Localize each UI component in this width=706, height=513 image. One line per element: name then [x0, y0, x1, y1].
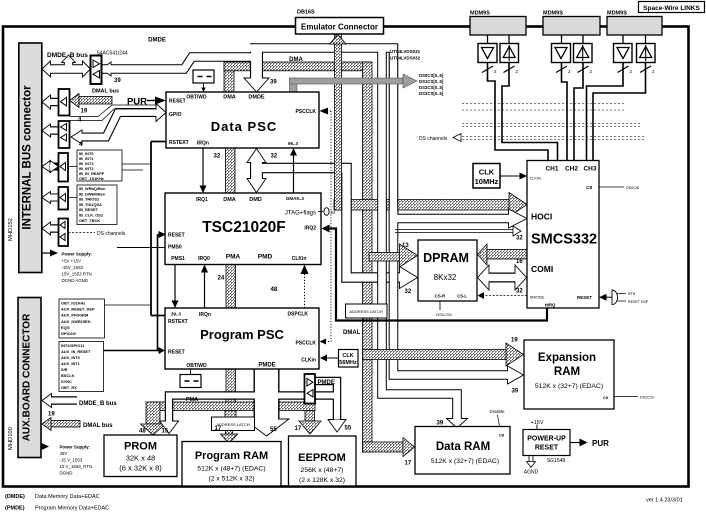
svg-text:32K x 48: 32K x 48	[126, 454, 156, 463]
svg-text:Power Supply:: Power Supply:	[60, 445, 91, 450]
block Program RAM	[182, 442, 281, 487]
signal list box AUX 2	[59, 342, 104, 392]
wire LVDS1a to CH1	[488, 63, 549, 161]
lvds pair 1 driver	[478, 44, 497, 63]
buffer row5	[59, 187, 69, 210]
lvds pair 2 receiver	[574, 44, 593, 63]
svg-text:CH1: CH1	[545, 166, 558, 173]
svg-text:DMDE: DMDE	[148, 38, 166, 44]
svg-text:RESET: RESET	[169, 99, 186, 105]
label power supply IB	[62, 252, 93, 284]
svg-text:PROM: PROM	[124, 441, 157, 453]
connector MDM9S 2	[543, 11, 600, 36]
svg-text:17: 17	[405, 461, 412, 467]
svg-text:48: 48	[271, 287, 278, 293]
svg-text:RESET: RESET	[535, 445, 559, 452]
svg-text:ver 1.4 23/3/01: ver 1.4 23/3/01	[646, 498, 683, 504]
wire Expansion RAM C9 to DS2CSI	[614, 396, 638, 398]
svg-text:PUR: PUR	[127, 97, 147, 108]
svg-text:TSC21020F: TSC21020F	[202, 219, 286, 236]
svg-text:UT54LVDS032: UT54LVDS032	[390, 56, 421, 61]
svg-text:56MHz: 56MHz	[339, 360, 357, 366]
wire DMD head up into Data PSC	[247, 149, 266, 163]
wire Program RAM 55 big head	[244, 419, 289, 436]
buffer row3	[59, 121, 70, 148]
svg-text:IRQn: IRQn	[199, 312, 211, 318]
svg-text:19: 19	[48, 412, 55, 418]
svg-text:DPRAM: DPRAM	[423, 251, 469, 265]
svg-text:10MHz: 10MHz	[475, 177, 499, 186]
svg-text:(2 x 512K x 32): (2 x 512K x 32)	[208, 476, 254, 483]
wire DPRAM 32 white head	[400, 267, 418, 289]
svg-text:Power Supply:: Power Supply:	[62, 252, 93, 257]
connector JTAG	[285, 208, 336, 217]
wire PROM 15 white head	[160, 421, 179, 434]
block DPRAM	[418, 240, 477, 301]
svg-text:13: 13	[402, 243, 409, 249]
wire MDM2 to LVDS	[562, 35, 584, 44]
bus width labels	[48, 78, 523, 467]
svg-text:32: 32	[214, 154, 221, 160]
svg-text:32: 32	[405, 289, 412, 295]
bus group: row6 double arrow	[42, 222, 59, 235]
svg-text:512K x (48+7) (EDAC): 512K x (48+7) (EDAC)	[197, 466, 265, 473]
wire PMA stub to address latch	[225, 411, 236, 418]
wire DMD head down into TSC	[247, 179, 266, 193]
svg-text:39: 39	[114, 78, 121, 84]
svg-text:DB16S: DB16S	[297, 10, 315, 16]
svg-text:CS-L: CS-L	[457, 294, 467, 299]
wire address latch to Program RAM 17 hatched	[221, 431, 238, 444]
wire power supply arrow AUX	[41, 446, 43, 448]
wire Expansion RAM 19 hatched head	[506, 343, 524, 366]
wire EEPROM 17 hatched head	[299, 421, 321, 434]
svg-text:MHD152: MHD152	[8, 218, 14, 241]
wire DS channels dashed stub left	[69, 232, 96, 234]
wire IRQn to TSC IRQ1	[202, 148, 204, 187]
svg-text:JTAG+flags: JTAG+flags	[285, 211, 316, 217]
svg-text:OBT/WD: OBT/WD	[186, 95, 207, 101]
svg-text:RESET DSP: RESET DSP	[628, 300, 649, 304]
bus group: row2 arrow to connector	[42, 95, 59, 109]
svg-text:+5V +15V: +5V +15V	[62, 259, 82, 264]
svg-text:DGND AGND: DGND AGND	[62, 278, 89, 283]
wire SMODE dashed to DPRAM CS-L	[483, 295, 527, 297]
svg-text:HIRQ: HIRQ	[545, 303, 556, 308]
svg-text:19: 19	[511, 338, 518, 344]
svg-text:ADDRESS LATCH: ADDRESS LATCH	[349, 309, 382, 314]
wire Expansion RAM 39 white head	[508, 366, 524, 384]
block CLK 56MHz	[320, 350, 358, 368]
slash marks 2-wide	[482, 66, 651, 73]
svg-text:15 V_1553_RTN: 15 V_1553_RTN	[60, 464, 93, 469]
svg-text:Program Memory Data+EDAC: Program Memory Data+EDAC	[35, 506, 109, 512]
wire gray chip-select bus from Data PSC	[290, 74, 418, 92]
svg-text:PUR: PUR	[592, 439, 609, 448]
svg-text:55: 55	[270, 427, 277, 433]
svg-text:CH2: CH2	[565, 166, 578, 173]
svg-text:DMA: DMA	[223, 95, 236, 101]
svg-text:96..3: 96..3	[288, 141, 299, 146]
buffer row4	[59, 153, 69, 182]
wire thin bus to SMCS with small head	[395, 226, 521, 236]
svg-text:512K x (32+7) (EDAC): 512K x (32+7) (EDAC)	[431, 458, 499, 465]
bus group: row3 double arrow	[42, 124, 59, 137]
svg-text:DMD: DMD	[249, 197, 262, 203]
wire MDM3 to LVDS	[623, 35, 646, 44]
legend DMDE PMDE	[5, 494, 109, 512]
block SMCS332	[527, 161, 599, 309]
svg-text:EEPROM: EEPROM	[298, 452, 346, 464]
svg-text:AGND: AGND	[524, 470, 539, 476]
svg-text:OBT_RX: OBT_RX	[61, 385, 77, 390]
block CLK 10MHz	[473, 164, 527, 189]
svg-text:POWER-UP: POWER-UP	[527, 436, 566, 443]
svg-text:48V: 48V	[60, 451, 68, 456]
buffer 54AC541/244	[91, 56, 102, 85]
wire RESET net	[104, 235, 160, 351]
connector INTERNAL BUS	[19, 43, 42, 273]
svg-text:(DMDE): (DMDE)	[5, 494, 25, 500]
svg-text:IRQ1: IRQ1	[196, 197, 208, 203]
svg-text:CLKin: CLKin	[292, 256, 307, 262]
wire DMAL to Expansion RAM horizontal	[363, 350, 507, 360]
wire TSC PMS1 down to Program PSC	[174, 265, 176, 303]
block Data RAM	[415, 427, 510, 475]
wire RSTEXT net	[151, 142, 166, 316]
svg-text:RSTEXT: RSTEXT	[169, 140, 189, 146]
svg-text:PMS0: PMS0	[168, 245, 182, 251]
svg-text:15: 15	[162, 429, 169, 435]
svg-text:RTN: RTN	[628, 292, 636, 296]
svg-text:C8: C8	[586, 185, 592, 190]
lvds pair 2 driver	[552, 44, 571, 63]
svg-text:Disable: Disable	[489, 409, 505, 414]
bus group: DPRAM-SMCS COMI double arrow	[478, 265, 527, 290]
svg-text:PSCCLK: PSCCLK	[295, 109, 316, 115]
svg-text:BSCLK: BSCLK	[61, 373, 75, 378]
svg-text:AUX_PFDGRM: AUX_PFDGRM	[61, 313, 88, 318]
svg-text:55: 55	[345, 426, 352, 432]
wire PMA bus vertical below Program PSC	[226, 369, 236, 404]
svg-text:IRQ2: IRQ2	[304, 226, 316, 232]
wire HOCI hatched head into SMCS332	[509, 193, 527, 217]
bus group: row5 arrow	[42, 192, 59, 204]
block TSC21020F	[165, 193, 321, 265]
svg-text:DMAL bus: DMAL bus	[83, 423, 113, 429]
svg-text:Space-Wire LINKS: Space-Wire LINKS	[643, 5, 700, 12]
wire DMA bus vertical Data PSC to TSC	[226, 148, 236, 193]
wire HOCI hatched bus horizontal	[334, 200, 510, 211]
svg-text:DS3CS[0..5]: DS3CS[0..5]	[419, 91, 444, 96]
lvds pair 1 receiver	[500, 44, 519, 63]
lvds drivers-receivers	[478, 44, 655, 63]
bus group: row4 double arrow	[42, 161, 59, 173]
svg-text:24: 24	[218, 276, 225, 282]
svg-text:256K x (48+7): 256K x (48+7)	[301, 467, 344, 474]
svg-text:-15V_1553: -15V_1553	[62, 265, 84, 270]
svg-text:ADDRESS LATCH: ADDRESS LATCH	[216, 422, 249, 427]
svg-text:DMA: DMA	[223, 197, 236, 203]
wire DMAL bus long vertical	[363, 62, 373, 452]
bus group: PMDE net	[160, 369, 347, 436]
svg-text:PMDE: PMDE	[258, 363, 275, 369]
svg-text:(2 x 128K x 32): (2 x 128K x 32)	[299, 477, 345, 484]
svg-text:DS1CS[0..5]: DS1CS[0..5]	[419, 79, 444, 84]
svg-text:EQG: EQG	[61, 325, 70, 330]
svg-text:SG1548: SG1548	[547, 458, 566, 464]
wire SMCS 32 white head	[509, 209, 528, 228]
oscillator OBT/WD Program PSC	[180, 370, 201, 388]
label DS chip selects	[419, 73, 444, 96]
wire power supply arrow IB	[42, 252, 51, 254]
lvds pair 3 driver	[614, 44, 633, 63]
svg-text:DSPCLK: DSPCLK	[287, 312, 308, 318]
svg-text:Emulator Connector: Emulator Connector	[301, 23, 378, 32]
svg-text:IB_CLK_OS2: IB_CLK_OS2	[79, 213, 104, 218]
wire DMDE head down into Data PSC	[244, 78, 269, 92]
svg-text:Data Memory Data+EDAC: Data Memory Data+EDAC	[35, 494, 100, 500]
box Space-Wire LINKS	[639, 2, 705, 13]
wire DMAL to Data RAM horizontal	[363, 442, 404, 452]
block POWER-UP RESET	[523, 420, 609, 476]
wire thin staircase buses to GPIO	[70, 105, 157, 121]
svg-text:RESET: RESET	[168, 350, 185, 356]
svg-text:-15 V_1553: -15 V_1553	[60, 458, 83, 463]
wire LVDS1b to CH1	[502, 63, 558, 161]
block EEPROM	[289, 436, 357, 486]
svg-text:Data RAM: Data RAM	[436, 441, 490, 453]
svg-text:OBT/WD: OBT/WD	[186, 363, 207, 369]
buffer PMDE	[305, 374, 316, 404]
wire DS channels dashed lines right	[462, 104, 645, 140]
svg-text:DS1CS0: DS1CS0	[436, 312, 452, 317]
svg-text:CS-R: CS-R	[435, 294, 445, 299]
wire SMCS C8 to DS0C8I	[599, 186, 624, 188]
svg-text:C8: C8	[499, 433, 505, 438]
svg-text:15V_1553 RTN: 15V_1553 RTN	[62, 272, 92, 277]
wire Data RAM 39 white head down	[447, 419, 468, 429]
svg-text:PSCCLK: PSCCLK	[295, 341, 316, 347]
svg-text:AUX_INT0: AUX_INT0	[61, 355, 80, 360]
buffer row6	[59, 219, 69, 247]
wire DPRAM 13 hatched head	[400, 244, 418, 267]
bus group: DMDE net (buffer1 - top bus - SMCS - ExpRAM - DataRAM)	[101, 48, 527, 428]
svg-text:Program RAM: Program RAM	[195, 450, 268, 462]
svg-text:CLK: CLK	[479, 168, 495, 177]
wire LVDS3b to CH3	[593, 63, 646, 161]
wire PMA to EEPROM vertical	[305, 411, 315, 422]
svg-text:48: 48	[139, 429, 146, 435]
svg-text:32: 32	[516, 236, 523, 242]
block Data PSC	[166, 92, 319, 148]
svg-text:MDM9S: MDM9S	[543, 11, 563, 17]
svg-text:DMA9..3: DMA9..3	[286, 196, 304, 201]
svg-text:DS2CS[0..5]: DS2CS[0..5]	[419, 85, 444, 90]
svg-text:IB_RESET: IB_RESET	[79, 207, 99, 212]
svg-text:IB_WRbQ/Ben: IB_WRbQ/Ben	[79, 186, 106, 191]
lvds pair 3 receiver	[637, 44, 656, 63]
svg-text:Data PSC: Data PSC	[211, 119, 278, 134]
svg-text:PMA: PMA	[226, 254, 241, 261]
svg-text:DS channels: DS channels	[97, 231, 126, 237]
svg-text:SMODE: SMODE	[530, 295, 545, 300]
wire PMA to PROM vertical	[146, 402, 160, 424]
connector symbol reset input	[599, 290, 649, 305]
svg-text:AUX.BOARD CONNECTOR: AUX.BOARD CONNECTOR	[22, 313, 33, 441]
svg-text:DMAL: DMAL	[343, 330, 361, 336]
svg-text:DMDE_B bus: DMDE_B bus	[47, 52, 88, 59]
svg-text:22: 22	[331, 210, 337, 215]
svg-text:39: 39	[512, 389, 519, 395]
buffer row2	[59, 89, 70, 116]
svg-text:DS2CSI: DS2CSI	[640, 396, 654, 400]
svg-text:CH3: CH3	[583, 166, 596, 173]
wire SMCS to DPRAM hatched 16 arrow	[478, 244, 528, 265]
svg-text:CLKIN: CLKIN	[530, 177, 541, 181]
svg-text:DMA: DMA	[289, 57, 303, 63]
svg-text:DS channels: DS channels	[419, 136, 448, 142]
connector MDM9S 3	[607, 11, 662, 36]
wire PSCCLK dotted net	[321, 111, 331, 342]
svg-text:Expansion: Expansion	[538, 352, 596, 364]
svg-text:DMDE_B bus: DMDE_B bus	[79, 401, 117, 407]
wire DMA bus vertical into Data PSC top	[224, 62, 234, 92]
svg-text:PMD: PMD	[258, 254, 273, 261]
svg-text:(6 x 32K x 8): (6 x 32K x 8)	[119, 464, 162, 473]
oscillator OBT/WD Data PSC	[193, 70, 214, 92]
wire DSPCLK dotted to TSC CLKin	[304, 273, 306, 308]
wire HIRQ to TSC IRQ2	[329, 229, 547, 321]
svg-text:UT54LVDS031: UT54LVDS031	[390, 49, 421, 54]
svg-text:SMCS332: SMCS332	[531, 232, 597, 248]
svg-text:54AC541/244: 54AC541/244	[97, 51, 128, 57]
svg-text:C9: C9	[603, 395, 609, 400]
svg-text:IB_TtS1QSA: IB_TtS1QSA	[79, 202, 102, 207]
signal list box IB control	[77, 185, 117, 225]
svg-text:OBT_TBCK: OBT_TBCK	[79, 218, 100, 223]
svg-text:17: 17	[215, 426, 222, 432]
wire PMA bus horizontal bottom	[150, 402, 315, 411]
svg-text:MDM9S: MDM9S	[470, 11, 490, 17]
svg-text:8Kx32: 8Kx32	[434, 273, 457, 282]
connector MDM9S 1	[470, 11, 526, 36]
signal list box AUX 1	[59, 299, 105, 338]
wire PUR to Data PSC RESET	[127, 97, 166, 108]
svg-text:S/R: S/R	[61, 367, 68, 372]
bus group: GPIO bus	[71, 104, 166, 145]
svg-text:COMI: COMI	[531, 264, 553, 274]
svg-text:HOCI: HOCI	[531, 212, 552, 222]
box ADDRESS LATCH 1	[212, 417, 255, 431]
svg-text:INTERNAL BUS connector: INTERNAL BUS connector	[21, 85, 33, 230]
svg-text:OBT_IO1KHz: OBT_IO1KHz	[61, 301, 85, 306]
svg-text:16: 16	[516, 259, 523, 265]
svg-text:17: 17	[295, 426, 302, 432]
wire DPRAM CS-R to DS1CS0	[439, 301, 441, 310]
svg-text:CLK: CLK	[342, 353, 353, 359]
svg-text:512K x (32+7) (EDAC): 512K x (32+7) (EDAC)	[535, 383, 603, 390]
bus group: IB connector row1 double arrow	[42, 55, 91, 77]
svg-text:32: 32	[516, 289, 523, 295]
block Program PSC	[165, 308, 319, 369]
svg-text:DS0CS[0..5]: DS0CS[0..5]	[419, 73, 444, 78]
svg-text:AUX_INT1: AUX_INT1	[61, 361, 81, 366]
svg-text:DS0C8I: DS0C8I	[626, 186, 639, 190]
wire head into buffer1	[102, 62, 112, 76]
wire Data RAM 17 hatched head	[403, 438, 415, 457]
wire EEPROM 55 white head	[328, 420, 346, 433]
svg-text:IRQn: IRQn	[197, 141, 209, 147]
svg-text:IRQ0: IRQ0	[198, 256, 210, 262]
svg-text:AUX_IN_RESET: AUX_IN_RESET	[61, 349, 91, 354]
wire LVDS2b to CH2	[574, 63, 583, 161]
svg-text:DMAL bus: DMAL bus	[92, 89, 119, 95]
svg-text:MHD100: MHD100	[8, 427, 14, 450]
svg-text:19: 19	[81, 109, 88, 115]
wire DMAL bus legend arrow at AUX connector	[51, 421, 80, 428]
box ADDRESS LATCH 2	[346, 304, 388, 318]
svg-text:MDM9S: MDM9S	[607, 11, 627, 17]
svg-text:CLKin: CLKin	[301, 358, 316, 364]
wire emulator bus vertical	[330, 34, 524, 366]
svg-text:DGND: DGND	[60, 471, 73, 476]
svg-text:IB_TRIOS2: IB_TRIOS2	[79, 197, 100, 202]
wire LVDS2a to CH2	[562, 63, 568, 161]
svg-text:GPIO1G: GPIO1G	[61, 331, 76, 336]
block Emulator Connector	[296, 10, 384, 35]
svg-text:39: 39	[270, 80, 277, 86]
block Expansion RAM	[524, 340, 614, 409]
svg-text:RESET: RESET	[168, 233, 185, 239]
wire PMS0 stub	[117, 247, 165, 249]
svg-text:INT2/GPIO11: INT2/GPIO11	[61, 343, 85, 348]
svg-text:AUX_DWR15EN: AUX_DWR15EN	[61, 319, 91, 324]
bus group: AUX DMDE_B arrow	[42, 394, 77, 408]
svg-text:PMA: PMA	[186, 397, 198, 403]
svg-text:OBT_1S1KHz: OBT_1S1KHz	[79, 176, 104, 181]
svg-text:RESET: RESET	[577, 295, 592, 300]
wire Program PSC IRQn up to TSC IRQ0	[204, 271, 206, 308]
wire DMAL to DPRAM branch	[369, 253, 400, 262]
wire MDM1 to LVDS	[488, 35, 510, 44]
svg-text:RSTEXT: RSTEXT	[168, 319, 188, 325]
wire buffer stubs	[68, 167, 77, 198]
svg-text:IB_DWER/Ben: IB_DWER/Ben	[79, 191, 106, 196]
wire DMAL bus small arrow to buffer row2	[79, 97, 112, 105]
svg-text:SYNC: SYNC	[61, 379, 72, 384]
svg-text:PMDE: PMDE	[318, 380, 335, 386]
svg-text:32: 32	[271, 154, 278, 160]
block PROM	[104, 435, 177, 477]
svg-text:AUX_RESET_DEP: AUX_RESET_DEP	[61, 307, 95, 312]
svg-text:39..3: 39..3	[171, 312, 182, 317]
svg-text:39: 39	[437, 421, 444, 427]
bus group: DMD net (TSC to Data PSC + branch to DPRAM)	[247, 149, 418, 289]
label power supply AUX	[60, 445, 93, 476]
signal list box IB interrupts	[77, 150, 122, 181]
svg-text:(PMDE): (PMDE)	[5, 506, 25, 512]
svg-text:RAM: RAM	[554, 366, 580, 378]
wire LVDS3a to CH3	[587, 63, 624, 161]
wire DMA9..3 to Data PSC 96..3	[293, 154, 295, 193]
svg-text:DMDE: DMDE	[248, 95, 265, 101]
svg-text:GPIO: GPIO	[169, 112, 182, 118]
svg-text:PMS1: PMS1	[171, 256, 185, 262]
wire DMA bus horizontal top	[224, 62, 371, 71]
svg-text:Program PSC: Program PSC	[200, 327, 284, 342]
connector AUX.BOARD	[18, 298, 41, 458]
